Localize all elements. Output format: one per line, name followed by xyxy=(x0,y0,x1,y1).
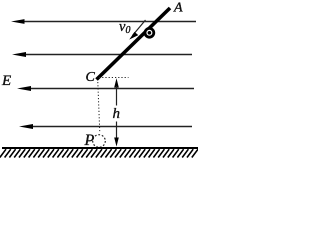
bead ring on rod xyxy=(145,28,154,37)
ground line xyxy=(2,147,198,149)
svg-text:P: P xyxy=(84,132,95,149)
h arrow shaft upper xyxy=(116,86,118,106)
dashed circle at P xyxy=(93,135,106,148)
field line 4 xyxy=(19,124,192,129)
svg-text:A: A xyxy=(173,1,183,16)
svg-text:C: C xyxy=(86,70,96,85)
h arrow up head xyxy=(114,78,119,87)
dotted vertical from C to P xyxy=(98,82,100,133)
rod AC xyxy=(97,8,171,80)
svg-text:h: h xyxy=(113,106,121,122)
field line 3 xyxy=(17,86,194,91)
ground hatching xyxy=(0,149,198,157)
dotted horizontal from C xyxy=(99,77,129,79)
field line 1 xyxy=(11,19,196,24)
v0 velocity arrow xyxy=(129,20,145,40)
h arrow shaft lower xyxy=(116,122,118,141)
h arrow down head xyxy=(114,138,119,147)
field line 2 xyxy=(12,52,192,57)
svg-text:E: E xyxy=(1,73,11,89)
